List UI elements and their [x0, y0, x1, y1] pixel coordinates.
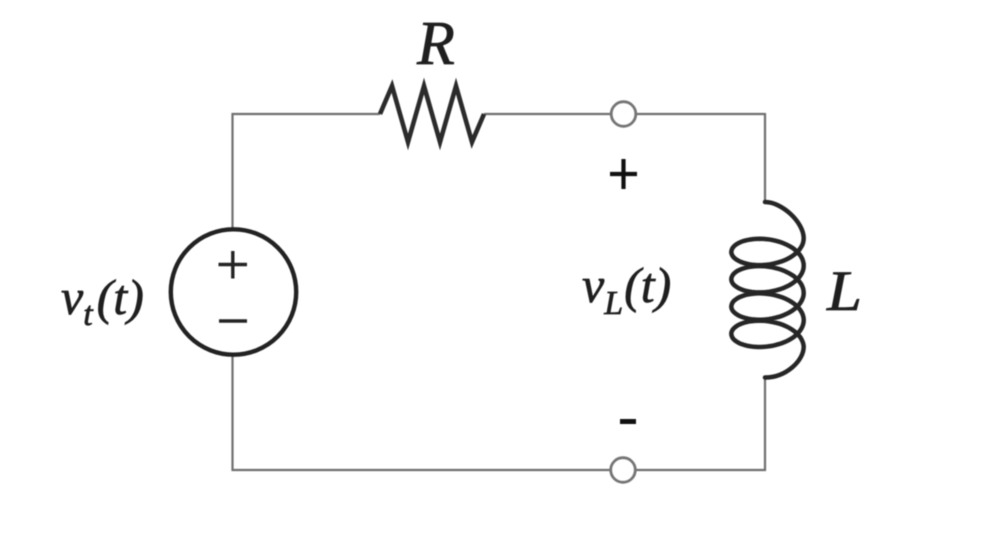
- terminal node bottom: [611, 458, 636, 483]
- svg-text:L: L: [826, 260, 862, 323]
- polarity minus label: [620, 419, 636, 424]
- inductor L coil: [731, 202, 803, 378]
- svg-text:R: R: [416, 10, 455, 78]
- voltage source plus sign: [219, 251, 248, 279]
- wire top-left segment: [232, 113, 381, 115]
- wire bottom-right segment: [636, 469, 766, 471]
- svg-text:vL(t): vL(t): [582, 257, 671, 322]
- svg-text:vt(t): vt(t): [61, 269, 144, 333]
- terminal node top: [611, 102, 636, 127]
- wire right lower: [764, 377, 766, 471]
- wire bottom-left segment: [232, 469, 612, 471]
- wire top-right segment: [636, 113, 765, 115]
- wire left upper: [231, 113, 233, 230]
- wire left lower: [231, 354, 233, 471]
- voltage source U1 circle: [171, 229, 296, 354]
- wire top-mid segment: [484, 113, 611, 115]
- polarity plus label: [610, 159, 637, 189]
- resistor R: [380, 86, 484, 142]
- voltage source minus sign: [219, 319, 247, 323]
- wire right upper: [764, 113, 766, 203]
